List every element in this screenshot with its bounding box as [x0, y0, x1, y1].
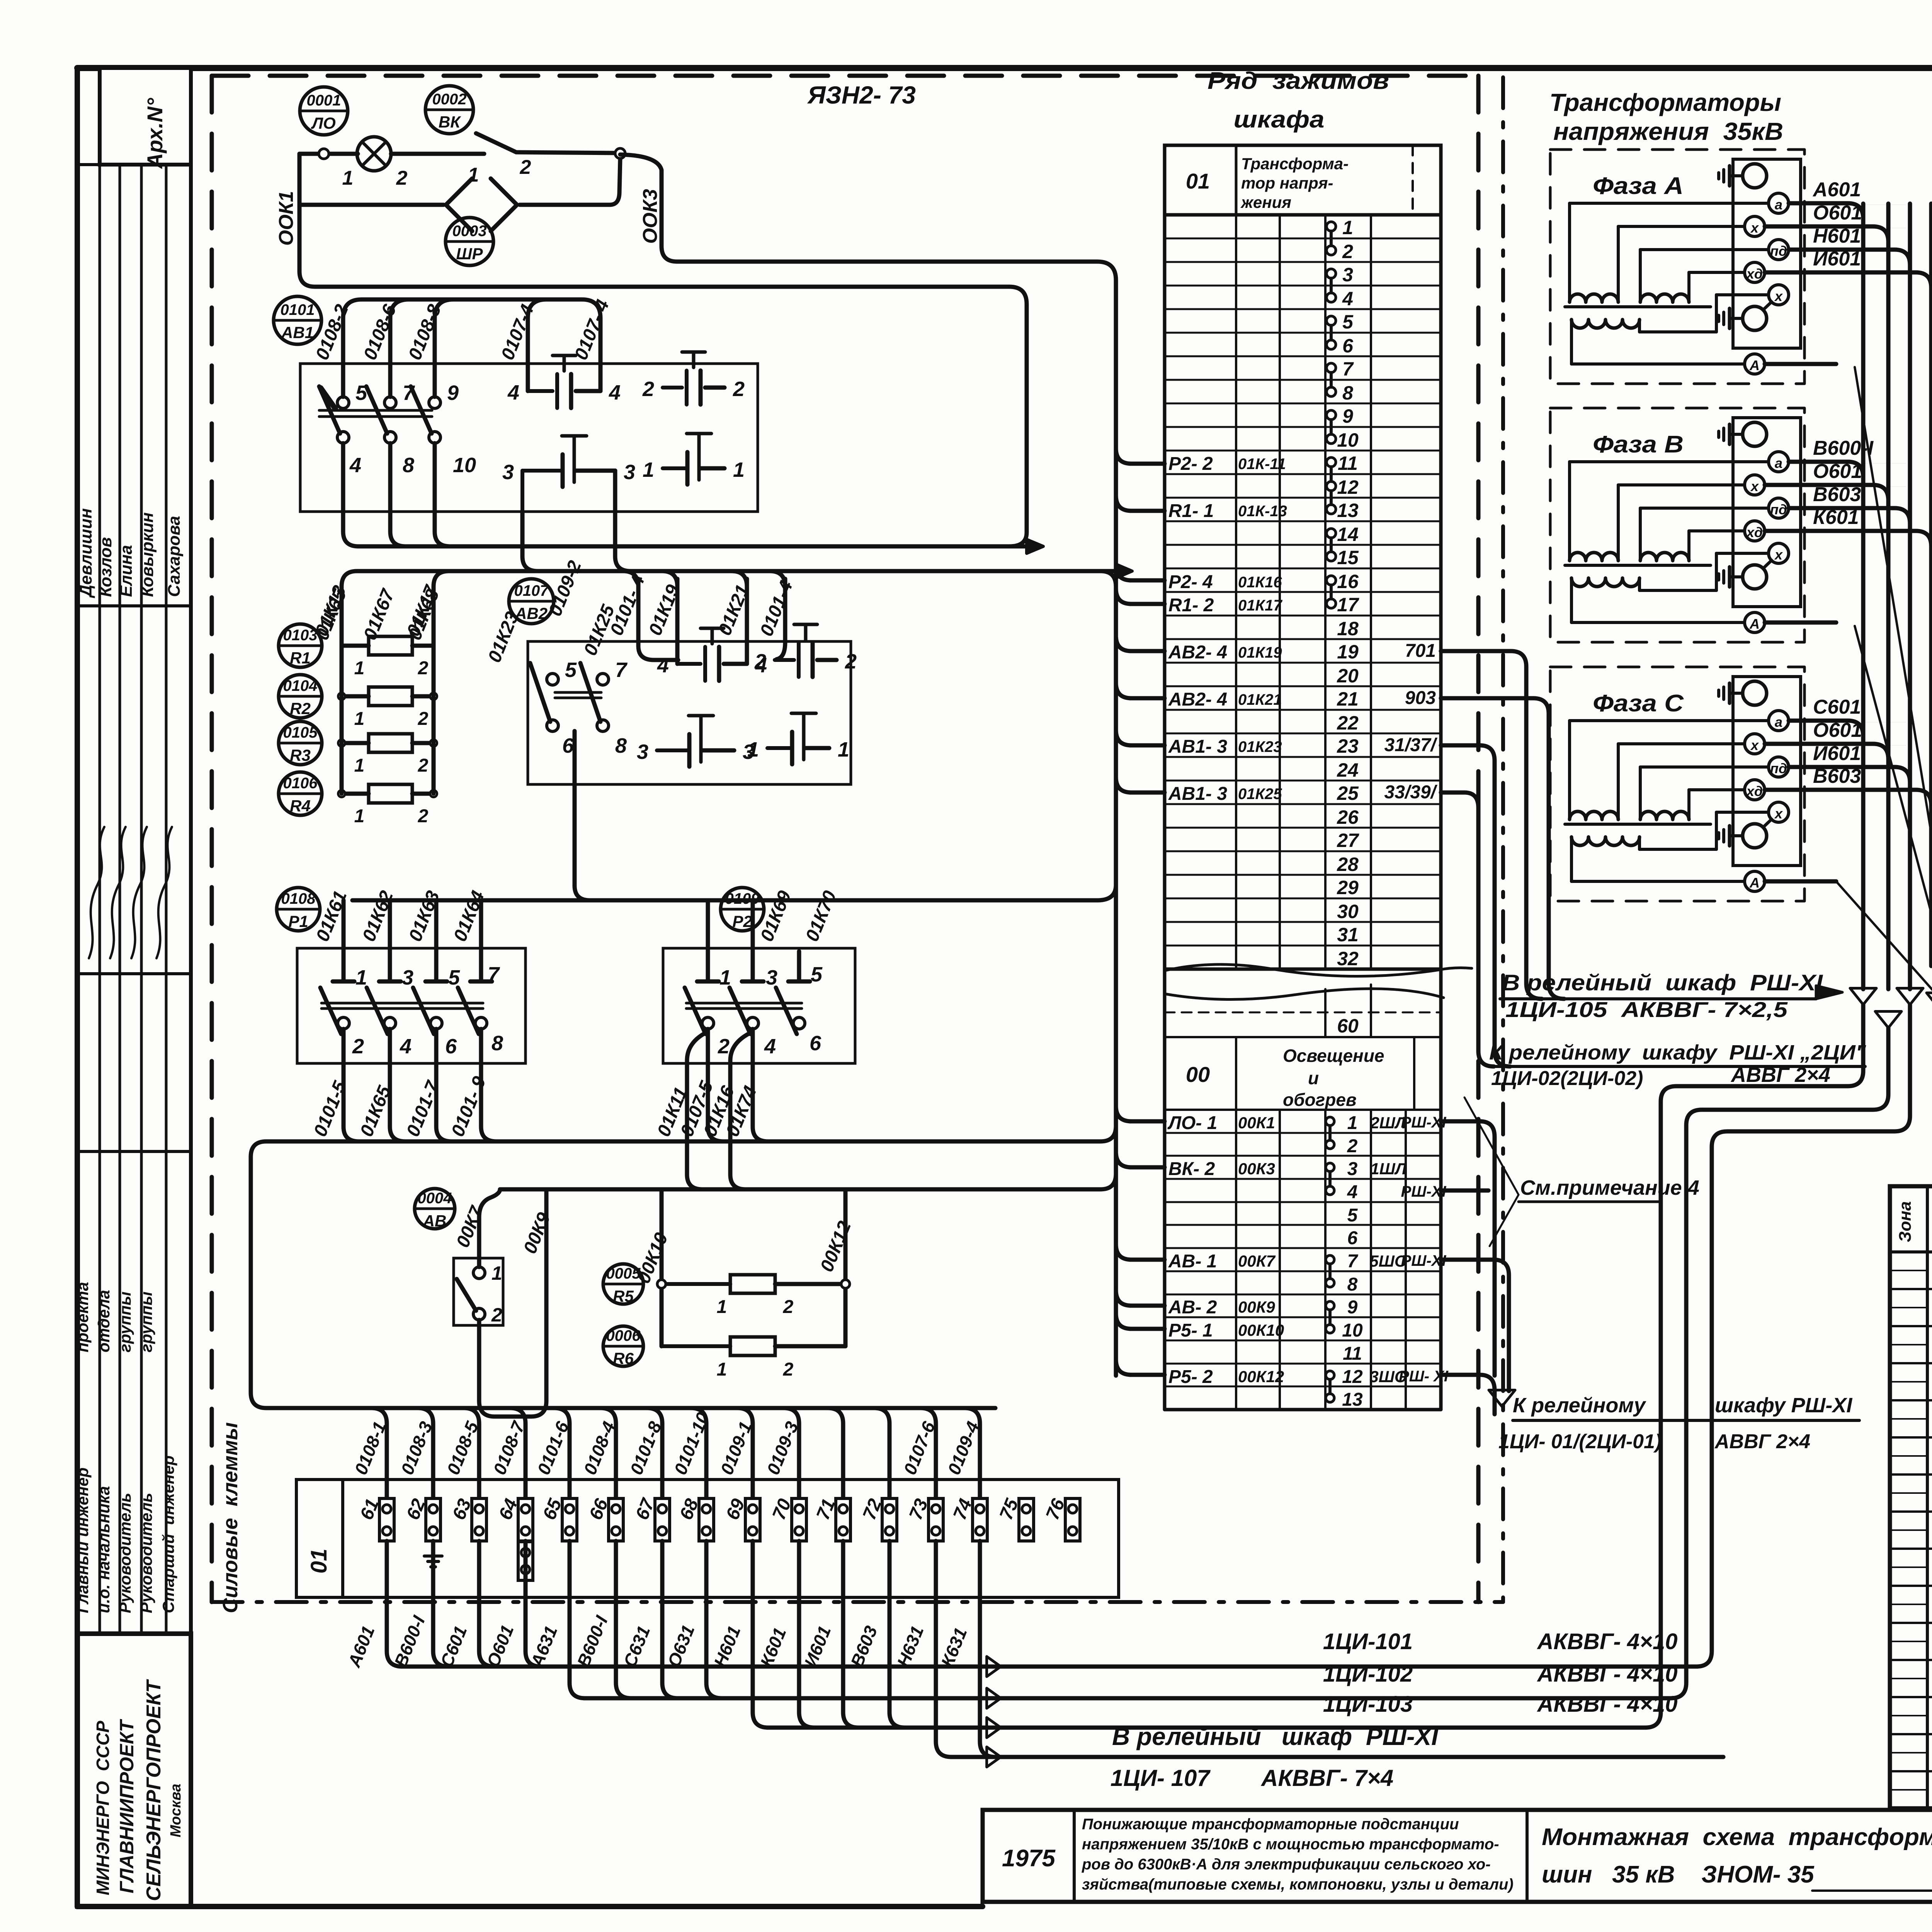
svg-text:10: 10: [453, 454, 476, 477]
svg-text:R2: R2: [290, 699, 311, 718]
svg-text:1: 1: [1342, 217, 1353, 238]
svg-text:О601: О601: [1813, 460, 1862, 483]
svg-text:Освещение: Освещение: [1283, 1046, 1384, 1066]
svg-text:группы: группы: [116, 1291, 134, 1352]
svg-text:ров до 6300кВ·А для электрифик: ров до 6300кВ·А для электрификации сельс…: [1082, 1856, 1491, 1873]
svg-text:01: 01: [306, 1549, 332, 1574]
svg-text:В релейный шкаф РШ-XI: В релейный шкаф РШ-XI: [1112, 1723, 1439, 1750]
svg-text:R4: R4: [290, 797, 311, 815]
svg-text:АВ2- 4: АВ2- 4: [1168, 642, 1227, 663]
svg-text:01К-13: 01К-13: [1238, 503, 1287, 520]
svg-text:25: 25: [1337, 782, 1359, 804]
svg-text:А: А: [1749, 875, 1760, 891]
svg-text:ЛО- 1: ЛО- 1: [1167, 1113, 1217, 1133]
svg-text:В релейный шкаф РШ-XI: В релейный шкаф РШ-XI: [1502, 970, 1823, 995]
svg-text:СЕЛЬЭНЕРГОПРОЕКТ: СЕЛЬЭНЕРГОПРОЕКТ: [143, 1679, 165, 1901]
svg-text:АВ- 2: АВ- 2: [1168, 1297, 1217, 1318]
svg-text:01К23: 01К23: [1238, 738, 1282, 755]
svg-text:ГЛАВНИИПРОЕКТ: ГЛАВНИИПРОЕКТ: [116, 1718, 138, 1893]
svg-text:2: 2: [754, 650, 766, 673]
svg-text:30: 30: [1337, 901, 1359, 922]
svg-text:1ЦИ- 01/(2ЦИ-01): 1ЦИ- 01/(2ЦИ-01): [1498, 1430, 1662, 1453]
svg-text:х: х: [1750, 220, 1759, 236]
svg-text:С601: С601: [1813, 696, 1861, 718]
svg-text:1ШЛ: 1ШЛ: [1370, 1160, 1406, 1178]
svg-text:ООК1: ООК1: [275, 191, 298, 246]
svg-text:3: 3: [502, 461, 514, 484]
svg-text:О601: О601: [1813, 202, 1862, 224]
svg-text:проекта: проекта: [73, 1282, 92, 1352]
svg-text:И601: И601: [1813, 742, 1861, 765]
svg-text:Фаза А: Фаза А: [1593, 173, 1684, 199]
svg-text:00К1: 00К1: [1238, 1114, 1275, 1132]
svg-text:15: 15: [1337, 547, 1359, 568]
svg-text:28: 28: [1337, 854, 1359, 875]
svg-text:01К19: 01К19: [1238, 644, 1282, 661]
svg-text:3: 3: [1347, 1159, 1358, 1179]
svg-text:2: 2: [1347, 1136, 1358, 1156]
svg-text:2: 2: [783, 1359, 794, 1380]
svg-text:00К7: 00К7: [1238, 1252, 1276, 1270]
svg-text:00К3: 00К3: [1238, 1160, 1275, 1178]
svg-text:2: 2: [642, 378, 654, 401]
svg-text:х: х: [1774, 288, 1783, 304]
svg-text:и: и: [1308, 1068, 1319, 1088]
svg-text:3: 3: [1342, 264, 1353, 286]
svg-text:отдела: отдела: [95, 1290, 113, 1352]
svg-text:3: 3: [624, 461, 635, 484]
svg-text:пд: пд: [1770, 760, 1787, 776]
svg-text:хд: хд: [1746, 783, 1763, 799]
svg-text:1ЦИ- 107 АКВВГ- 7×4: 1ЦИ- 107 АКВВГ- 7×4: [1111, 1765, 1394, 1791]
svg-text:2: 2: [418, 658, 429, 679]
svg-text:29: 29: [1337, 877, 1359, 898]
svg-text:Сахарова: Сахарова: [165, 516, 184, 597]
svg-text:пд: пд: [1770, 502, 1787, 517]
svg-text:АВ2- 4: АВ2- 4: [1168, 689, 1227, 710]
svg-text:и.о. начальника: и.о. начальника: [95, 1486, 113, 1613]
svg-text:Фаза С: Фаза С: [1593, 690, 1684, 717]
svg-text:Девлишин: Девлишин: [77, 508, 95, 599]
svg-text:а: а: [1775, 197, 1782, 213]
svg-text:13: 13: [1342, 1389, 1363, 1410]
svg-text:6: 6: [562, 734, 574, 757]
svg-text:группы: группы: [137, 1291, 155, 1352]
svg-text:ЛО: ЛО: [311, 114, 336, 132]
svg-text:13: 13: [1337, 500, 1359, 521]
svg-text:жения: жения: [1240, 193, 1291, 211]
svg-text:А601: А601: [1812, 179, 1861, 201]
svg-text:А: А: [1749, 357, 1760, 373]
svg-text:3: 3: [637, 740, 648, 764]
svg-text:5: 5: [1347, 1205, 1358, 1226]
svg-text:К601: К601: [1813, 506, 1859, 529]
svg-text:22: 22: [1337, 712, 1359, 734]
svg-text:ВК- 2: ВК- 2: [1168, 1159, 1215, 1179]
svg-text:16: 16: [1337, 571, 1359, 592]
svg-text:Р1: Р1: [288, 912, 308, 930]
svg-text:АВВГ 2×4: АВВГ 2×4: [1730, 1063, 1830, 1087]
svg-text:11: 11: [1338, 452, 1358, 474]
svg-text:00: 00: [1186, 1062, 1210, 1087]
svg-text:4: 4: [657, 654, 669, 677]
svg-text:7: 7: [488, 963, 500, 986]
svg-text:6: 6: [1342, 335, 1354, 357]
svg-text:АВ- 1: АВ- 1: [1168, 1251, 1217, 1272]
svg-text:В603: В603: [1813, 483, 1861, 506]
svg-text:Р2- 2: Р2- 2: [1168, 454, 1213, 474]
svg-text:К релейному: К релейному: [1513, 1394, 1646, 1417]
svg-text:24: 24: [1337, 759, 1359, 781]
svg-text:00К12: 00К12: [1238, 1367, 1284, 1386]
svg-text:шкафу РШ-XI: шкафу РШ-XI: [1715, 1394, 1852, 1417]
svg-text:00К9: 00К9: [1238, 1298, 1276, 1316]
svg-text:Арх.N°: Арх.N°: [143, 98, 167, 169]
svg-text:R5: R5: [613, 1287, 634, 1305]
svg-text:4: 4: [507, 381, 519, 404]
svg-text:Москва: Москва: [168, 1784, 184, 1837]
svg-text:0004: 0004: [418, 1190, 452, 1207]
svg-text:1: 1: [717, 1359, 727, 1380]
svg-text:1: 1: [717, 1297, 727, 1317]
svg-text:5: 5: [565, 658, 577, 682]
svg-text:5: 5: [448, 966, 460, 989]
svg-text:АВВГ 2×4: АВВГ 2×4: [1714, 1430, 1810, 1453]
svg-text:32: 32: [1337, 948, 1359, 969]
svg-text:а: а: [1775, 714, 1782, 730]
svg-text:0006: 0006: [606, 1327, 641, 1344]
svg-text:х: х: [1750, 737, 1759, 753]
svg-text:Главный инженер: Главный инженер: [73, 1468, 92, 1613]
svg-text:2: 2: [396, 167, 408, 189]
svg-text:1: 1: [492, 1262, 502, 1284]
svg-text:2: 2: [1342, 241, 1353, 262]
svg-text:х: х: [1774, 806, 1783, 821]
svg-text:Руководитель: Руководитель: [116, 1493, 134, 1613]
svg-text:напряжения 35кВ: напряжения 35кВ: [1553, 117, 1783, 145]
svg-text:2: 2: [520, 156, 531, 179]
svg-text:6: 6: [810, 1032, 821, 1055]
svg-text:8: 8: [403, 454, 414, 477]
svg-text:Зона: Зона: [1896, 1201, 1915, 1242]
svg-text:шин 35 кВ ЗНОМ- 35: шин 35 кВ ЗНОМ- 35: [1542, 1861, 1815, 1888]
svg-text:17: 17: [1337, 594, 1359, 616]
svg-text:1: 1: [747, 738, 759, 761]
svg-text:Ковыркин: Ковыркин: [138, 512, 157, 597]
svg-text:Понижающие трансформаторные по: Понижающие трансформаторные подстанции: [1082, 1816, 1459, 1833]
svg-text:6: 6: [445, 1035, 457, 1058]
svg-text:9: 9: [447, 381, 459, 405]
svg-text:0101: 0101: [281, 301, 315, 318]
svg-text:2: 2: [491, 1304, 502, 1326]
svg-text:шкафа: шкафа: [1234, 106, 1325, 133]
svg-text:Н601: Н601: [1813, 225, 1861, 247]
svg-text:АВ2: АВ2: [515, 604, 548, 622]
svg-text:27: 27: [1337, 830, 1359, 851]
svg-text:01К16: 01К16: [1238, 574, 1282, 591]
svg-text:4: 4: [1347, 1182, 1358, 1202]
svg-text:12: 12: [1342, 1367, 1363, 1387]
svg-text:2: 2: [718, 1035, 730, 1058]
svg-text:1: 1: [354, 755, 365, 776]
svg-text:20: 20: [1337, 665, 1359, 687]
svg-text:Р2- 4: Р2- 4: [1168, 572, 1213, 592]
svg-text:1ЦИ-102: 1ЦИ-102: [1323, 1662, 1413, 1687]
svg-text:АКВВГ- 4×10: АКВВГ- 4×10: [1537, 1629, 1678, 1654]
svg-text:хд: хд: [1746, 524, 1763, 540]
svg-text:0001: 0001: [307, 92, 341, 109]
svg-text:1ЦИ-02(2ЦИ-02): 1ЦИ-02(2ЦИ-02): [1491, 1067, 1643, 1090]
svg-text:АКВВГ- 4×10: АКВВГ- 4×10: [1537, 1692, 1678, 1717]
svg-text:11: 11: [1343, 1344, 1362, 1364]
svg-text:Фаза В: Фаза В: [1593, 431, 1684, 458]
svg-text:пд: пд: [1770, 243, 1787, 259]
svg-text:зяйства(типовые схемы, компоно: зяйства(типовые схемы, компоновки, узлы …: [1082, 1876, 1514, 1893]
svg-text:обогрев: обогрев: [1283, 1090, 1357, 1110]
svg-text:8: 8: [1347, 1274, 1358, 1295]
svg-text:7: 7: [403, 381, 415, 405]
svg-text:26: 26: [1337, 806, 1359, 828]
svg-text:R6: R6: [613, 1349, 634, 1367]
svg-text:33/39/: 33/39/: [1384, 782, 1438, 803]
svg-text:Елина: Елина: [117, 545, 136, 597]
svg-text:ЯЗН2- 73: ЯЗН2- 73: [807, 81, 916, 109]
svg-text:01: 01: [1186, 169, 1210, 193]
svg-text:23: 23: [1337, 735, 1359, 757]
svg-text:R1- 1: R1- 1: [1168, 501, 1214, 521]
svg-text:а: а: [1775, 455, 1782, 471]
svg-text:5: 5: [811, 963, 823, 986]
svg-text:1: 1: [838, 738, 849, 761]
svg-text:18: 18: [1337, 618, 1359, 639]
svg-text:1: 1: [1347, 1113, 1358, 1133]
svg-text:1: 1: [733, 458, 745, 481]
svg-text:1ЦИ-101: 1ЦИ-101: [1323, 1629, 1413, 1654]
svg-text:И601: И601: [1813, 248, 1861, 270]
svg-text:2: 2: [783, 1297, 794, 1317]
svg-text:2: 2: [733, 378, 745, 401]
svg-text:Трансформаторы: Трансформаторы: [1549, 88, 1781, 116]
svg-text:1ЦИ-105 АКВВГ- 7×2,5: 1ЦИ-105 АКВВГ- 7×2,5: [1505, 997, 1788, 1022]
svg-text:2: 2: [418, 755, 429, 776]
svg-text:0107: 0107: [514, 582, 549, 599]
svg-text:ООК3: ООК3: [639, 189, 662, 244]
svg-text:1: 1: [354, 806, 365, 827]
svg-text:6: 6: [1347, 1228, 1358, 1248]
svg-text:2: 2: [418, 709, 429, 729]
svg-text:0108: 0108: [281, 890, 316, 907]
svg-text:АВ1: АВ1: [281, 323, 314, 342]
svg-text:2: 2: [352, 1035, 364, 1058]
svg-text:1: 1: [643, 458, 654, 481]
svg-text:4: 4: [349, 454, 361, 477]
svg-text:напряжением 35/10кВ с мощность: напряжением 35/10кВ с мощностью трансфор…: [1082, 1836, 1499, 1853]
svg-text:0106: 0106: [283, 775, 318, 792]
svg-text:4: 4: [609, 381, 621, 404]
svg-text:8: 8: [492, 1032, 503, 1055]
svg-text:0105: 0105: [283, 724, 318, 741]
svg-text:12: 12: [1337, 476, 1359, 498]
svg-text:7: 7: [615, 658, 628, 682]
svg-text:Старший инженер: Старший инженер: [159, 1456, 177, 1613]
svg-text:А: А: [1749, 616, 1760, 632]
svg-text:3: 3: [766, 966, 777, 989]
svg-text:Монтажная схема трансформато: Монтажная схема трансформатора напряжени…: [1542, 1824, 1932, 1850]
svg-text:4: 4: [400, 1035, 412, 1058]
svg-text:ВК: ВК: [439, 113, 461, 131]
svg-text:О601: О601: [1813, 719, 1862, 742]
svg-text:4: 4: [764, 1035, 776, 1058]
svg-text:Р2: Р2: [732, 912, 752, 930]
svg-text:9: 9: [1342, 405, 1353, 427]
svg-text:01К25: 01К25: [1238, 786, 1282, 803]
svg-text:903: 903: [1405, 688, 1436, 708]
svg-text:1ЦИ-103: 1ЦИ-103: [1323, 1692, 1413, 1717]
svg-text:2: 2: [845, 650, 857, 673]
svg-text:См.примечание 4: См.примечание 4: [1520, 1176, 1699, 1199]
svg-text:5: 5: [1342, 311, 1354, 333]
svg-text:1: 1: [342, 167, 354, 189]
svg-text:0104: 0104: [283, 677, 318, 694]
svg-text:1: 1: [354, 709, 365, 729]
svg-text:5: 5: [355, 381, 367, 405]
svg-text:АВ: АВ: [423, 1212, 447, 1230]
svg-text:К релейному шкафу РШ-XI „2ЦИ: К релейному шкафу РШ-XI „2ЦИ": [1489, 1041, 1866, 1064]
svg-text:1: 1: [354, 658, 365, 679]
svg-text:21: 21: [1337, 688, 1359, 710]
svg-text:10: 10: [1337, 429, 1359, 451]
svg-text:1975: 1975: [1002, 1845, 1056, 1872]
svg-text:60: 60: [1337, 1015, 1359, 1037]
svg-text:1: 1: [355, 966, 367, 989]
svg-text:хд: хд: [1746, 266, 1763, 282]
svg-text:4: 4: [1342, 288, 1353, 310]
svg-text:R1- 2: R1- 2: [1168, 595, 1214, 616]
svg-text:Силовые клеммы: Силовые клеммы: [219, 1422, 242, 1613]
svg-text:0002: 0002: [432, 91, 467, 108]
svg-text:31: 31: [1337, 924, 1359, 946]
svg-text:ШР: ШР: [456, 245, 483, 263]
svg-text:701: 701: [1405, 641, 1436, 661]
svg-text:01К-11: 01К-11: [1238, 456, 1286, 473]
svg-text:14: 14: [1337, 524, 1359, 545]
svg-text:АВ1- 3: АВ1- 3: [1168, 784, 1227, 804]
svg-text:В603: В603: [1813, 765, 1861, 787]
svg-text:Ряд зажимов: Ряд зажимов: [1207, 68, 1389, 94]
svg-text:Р5- 2: Р5- 2: [1168, 1367, 1213, 1387]
svg-text:8: 8: [1342, 382, 1353, 404]
svg-text:10: 10: [1342, 1320, 1363, 1341]
svg-text:3: 3: [402, 966, 413, 989]
svg-text:9: 9: [1347, 1297, 1358, 1318]
svg-text:АКВВГ- 4×10: АКВВГ- 4×10: [1537, 1662, 1678, 1687]
svg-text:19: 19: [1337, 641, 1359, 663]
svg-text:тор напря-: тор напря-: [1241, 174, 1333, 192]
svg-text:Руководитель: Руководитель: [137, 1493, 155, 1613]
svg-text:Козлов: Козлов: [96, 537, 115, 597]
svg-text:7: 7: [1342, 358, 1354, 380]
svg-text:Р5- 1: Р5- 1: [1168, 1320, 1213, 1341]
svg-text:х: х: [1750, 478, 1759, 494]
svg-text:R3: R3: [290, 746, 311, 764]
svg-text:31/37/: 31/37/: [1384, 735, 1438, 755]
svg-text:2: 2: [418, 806, 429, 827]
svg-text:Трансформа-: Трансформа-: [1241, 155, 1349, 173]
svg-text:7: 7: [1347, 1251, 1359, 1272]
svg-text:R1: R1: [290, 649, 311, 667]
svg-text:00К10: 00К10: [1238, 1321, 1284, 1339]
svg-text:АВ1- 3: АВ1- 3: [1168, 736, 1227, 757]
svg-text:х: х: [1774, 547, 1783, 563]
svg-text:01К17: 01К17: [1238, 597, 1282, 614]
svg-text:1: 1: [719, 966, 731, 989]
svg-text:8: 8: [615, 734, 627, 757]
svg-text:МИНЭНЕРГО СССР: МИНЭНЕРГО СССР: [93, 1721, 113, 1895]
svg-text:01К21: 01К21: [1238, 691, 1282, 708]
